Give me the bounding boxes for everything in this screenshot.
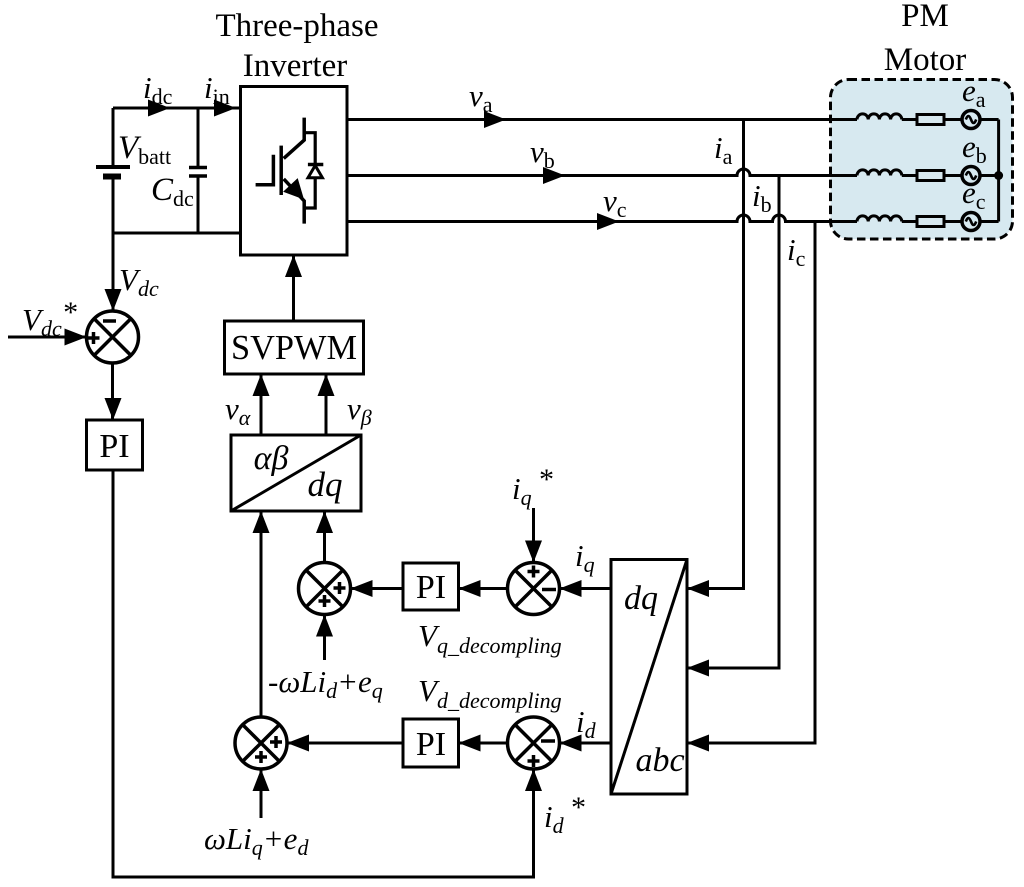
svg-text:PI: PI <box>99 428 129 465</box>
wire dq-abc to S3 (iq) <box>560 587 612 590</box>
svg-text:PI: PI <box>416 569 446 606</box>
wire ib tap <box>778 176 781 657</box>
label iq <box>575 538 595 577</box>
wire v-beta <box>325 374 328 435</box>
wire Vdc sense <box>112 233 115 311</box>
wire q decoupling input <box>323 615 326 661</box>
label Vd_decompling <box>418 673 562 713</box>
summing junction S5 (d current error) <box>508 717 560 769</box>
motor phase c: wire <box>902 220 917 223</box>
svg-text:-ωLid+eq: -ωLid+eq <box>268 664 383 703</box>
wire dc bottom <box>113 232 241 235</box>
wire ic tap <box>814 222 817 732</box>
wire ia tap <box>742 120 745 578</box>
motor phase a: wire <box>944 118 963 121</box>
wire PI1 feedback to S5 (id-ref) <box>113 470 534 877</box>
svg-text:SVPWM: SVPWM <box>231 328 357 367</box>
motor phase b: wire <box>902 174 917 177</box>
svg-text:αβ: αβ <box>254 440 289 477</box>
summing junction S4 (d voltage) <box>235 717 287 769</box>
label vb <box>530 134 555 173</box>
label idc <box>143 70 173 109</box>
battery Vbatt <box>112 108 115 167</box>
wire S3 to qPI <box>459 587 508 590</box>
motor phase a: resistor Ra <box>917 115 944 125</box>
wire qPI to S2 <box>351 587 404 590</box>
svg-text:dq: dq <box>308 465 343 504</box>
label id <box>576 704 597 743</box>
label wLiq+ed <box>204 821 309 860</box>
diode D1 cathode bar <box>308 163 323 167</box>
wire ic into dq-abc <box>687 731 815 743</box>
IGBT Q1 gate <box>256 155 274 185</box>
block dq-abc transform <box>611 560 687 795</box>
motor phase b: resistor Rb <box>917 171 944 181</box>
block PI2 (q axis) <box>403 563 459 610</box>
label va <box>469 78 493 117</box>
label ia <box>714 130 733 169</box>
motor phase c: wire <box>944 220 963 223</box>
wire vb from inverter to motor (hump over ia) <box>347 169 857 175</box>
summing junction S1 (Vdc loop) <box>87 311 139 363</box>
motor phase a: wire to bus <box>980 118 999 121</box>
motor phase b: wire to bus <box>980 174 999 177</box>
label Vdc <box>119 262 159 301</box>
label Vq_decompling <box>418 618 562 658</box>
motor phase b: inductor Lb <box>857 170 902 176</box>
motor phase b: wire <box>944 174 963 177</box>
wire Vdc-ref input <box>8 336 87 339</box>
label v-alpha <box>225 391 251 430</box>
IGBT Q1 collector <box>284 118 305 159</box>
label id-ref <box>544 791 585 838</box>
svg-text:Three-phase: Three-phase <box>215 8 378 44</box>
label -wLid+eq <box>268 664 383 703</box>
wire S4 to alphabeta-dq (vd) <box>260 511 263 717</box>
label iin <box>204 70 230 109</box>
motor phase a: wire <box>902 118 917 121</box>
wire dPI to S4 <box>287 742 403 745</box>
svg-text:PI: PI <box>416 726 446 763</box>
wire S5 to dPI <box>459 742 508 745</box>
PM motor dashed box <box>831 80 1013 240</box>
wire vc from inverter to motor (humps over ia, ib) <box>347 215 857 222</box>
label iq-ref <box>512 463 553 510</box>
motor phase a: inductor La <box>857 114 902 120</box>
wire v-alpha <box>260 374 263 435</box>
motor phase c: resistor Rc <box>917 217 944 227</box>
label ib <box>752 178 772 217</box>
motor neutral bus wire <box>997 120 1000 222</box>
block PI3 (d axis) <box>403 719 459 767</box>
label eb <box>962 129 987 168</box>
wire ib into dq-abc <box>687 656 779 668</box>
motor phase c: wire to bus <box>980 220 999 223</box>
capacitor Cdc <box>197 108 200 168</box>
label ic <box>787 232 806 271</box>
motor phase b: source eb <box>962 167 980 185</box>
block SVPWM <box>225 321 364 374</box>
motor phase a: source ea <box>962 111 980 129</box>
label v-beta <box>347 391 372 430</box>
label vc <box>603 183 627 222</box>
motor phase c: source ec <box>962 213 980 231</box>
junction dot neutral <box>994 171 1003 180</box>
diode D1 triangle <box>308 166 322 178</box>
title PM Motor <box>884 0 967 78</box>
wire SVPWM to inverter <box>292 255 295 321</box>
svg-text:Motor: Motor <box>884 42 967 78</box>
wire ia into dq-abc <box>687 577 744 589</box>
wire S1 to PI1 <box>111 363 114 420</box>
motor phase c: inductor Lc <box>857 216 902 222</box>
block alphabeta-dq transform <box>231 435 361 511</box>
svg-text:dq: dq <box>624 580 658 617</box>
diode D1 branch <box>304 133 315 208</box>
label Vdc-ref <box>22 296 77 341</box>
block PI1 <box>87 420 143 470</box>
IGBT Q1 emitter <box>284 179 305 224</box>
svg-text:Inverter: Inverter <box>243 48 347 84</box>
IGBT Q1 body bar <box>279 146 283 195</box>
label ea <box>962 73 986 112</box>
summing junction S2 (q voltage) <box>299 563 351 615</box>
inverter box <box>241 87 348 256</box>
wire iq-ref input <box>532 508 535 563</box>
title Three-phase Inverter <box>215 8 378 84</box>
wire va from inverter to motor <box>347 118 857 121</box>
wire d decoupling input <box>260 769 263 818</box>
label ec <box>962 175 986 214</box>
wire dq-abc to S5 (id) <box>560 742 612 745</box>
summing junction S3 (q current error) <box>508 563 560 615</box>
svg-text:abc: abc <box>635 742 684 779</box>
svg-text:PM: PM <box>901 0 949 34</box>
wire dc top (idc, iin) <box>113 107 241 110</box>
wire S2 to alphabeta-dq (vq) <box>323 511 326 563</box>
